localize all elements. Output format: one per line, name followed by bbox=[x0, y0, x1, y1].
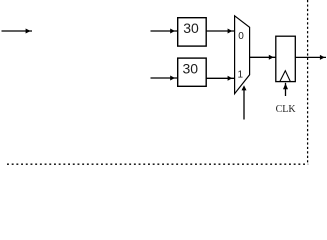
mux U1 bbox=[235, 16, 250, 94]
dashed boundary vertical bbox=[307, 0, 309, 165]
wire input arrow far left bbox=[2, 29, 33, 34]
svg-text:30: 30 bbox=[183, 61, 199, 77]
wire bottom box to mux input 1 bbox=[206, 76, 234, 81]
wire input arrow to bottom adder box bbox=[151, 76, 178, 81]
wire top box to mux input 0 bbox=[206, 29, 234, 34]
svg-text:0: 0 bbox=[238, 31, 244, 42]
box 30 (bottom) bbox=[178, 58, 207, 86]
svg-text:30: 30 bbox=[183, 20, 199, 36]
svg-text:CLK: CLK bbox=[276, 104, 297, 115]
box 30 (top) bbox=[178, 18, 207, 46]
clock edge triangle bbox=[280, 71, 291, 82]
dashed boundary bottom bbox=[7, 163, 308, 165]
wire mux output to register bbox=[250, 55, 276, 60]
wire mux select input bbox=[242, 85, 247, 119]
wire register output bbox=[295, 55, 326, 60]
wire input arrow to top adder box bbox=[151, 29, 178, 34]
register (flip-flop) bbox=[276, 36, 296, 81]
svg-text:1: 1 bbox=[238, 69, 244, 80]
wire CLK arrow into register bbox=[283, 83, 288, 96]
